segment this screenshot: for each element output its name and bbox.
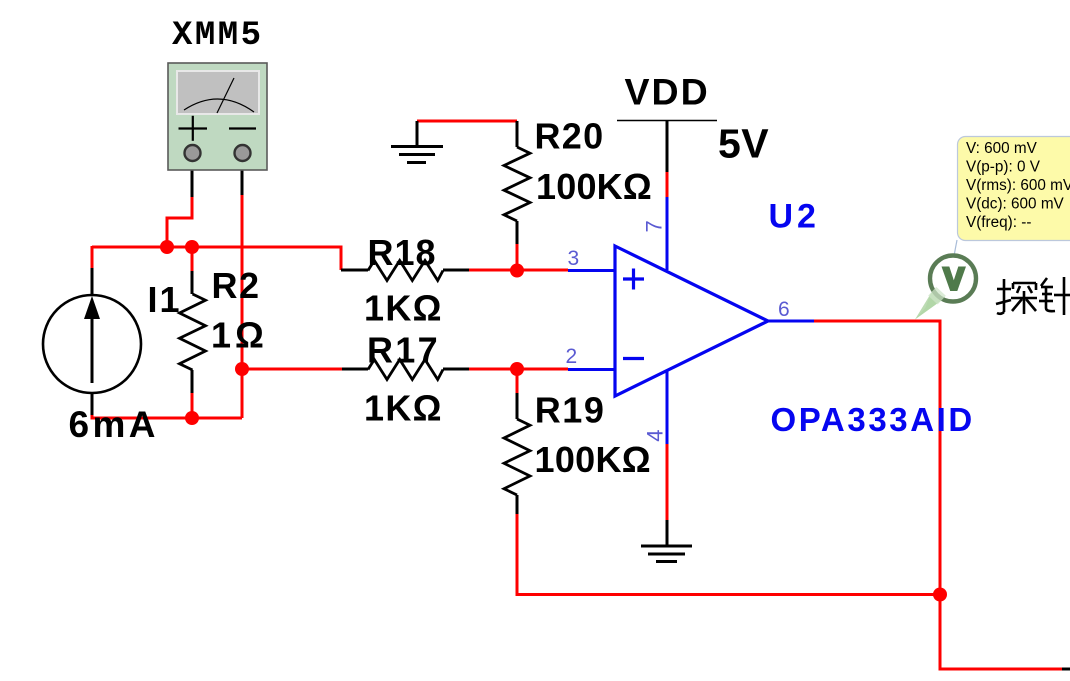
svg-text:2: 2 [566, 345, 578, 368]
svg-text:100KΩ: 100KΩ [535, 439, 651, 480]
svg-text:OPA333AID: OPA333AID [771, 401, 975, 438]
svg-text:U2: U2 [769, 197, 820, 235]
svg-text:V(p-p): 0 V: V(p-p): 0 V [966, 159, 1041, 176]
svg-text:3: 3 [568, 247, 580, 270]
svg-text:R20: R20 [535, 116, 605, 157]
svg-text:1KΩ: 1KΩ [364, 288, 443, 329]
svg-text:V: 600 mV: V: 600 mV [966, 140, 1038, 157]
svg-text:6mA: 6mA [69, 404, 159, 445]
svg-text:V(rms): 600 mV: V(rms): 600 mV [966, 177, 1070, 194]
svg-text:I1: I1 [148, 279, 182, 320]
svg-text:VDD: VDD [625, 70, 710, 112]
svg-text:R17: R17 [367, 330, 440, 371]
svg-text:100KΩ: 100KΩ [536, 166, 652, 207]
svg-text:R2: R2 [212, 265, 261, 306]
svg-text:1KΩ: 1KΩ [364, 387, 443, 428]
svg-text:7: 7 [642, 220, 667, 232]
svg-text:R18: R18 [368, 232, 437, 273]
svg-text:V(dc): 600 mV: V(dc): 600 mV [966, 196, 1065, 213]
svg-text:V(freq): --: V(freq): -- [966, 214, 1031, 231]
svg-text:6: 6 [778, 298, 790, 321]
svg-text:5V: 5V [718, 121, 769, 167]
svg-text:R19: R19 [535, 390, 606, 431]
svg-text:1Ω: 1Ω [211, 314, 268, 355]
svg-text:XMM5: XMM5 [172, 17, 261, 55]
